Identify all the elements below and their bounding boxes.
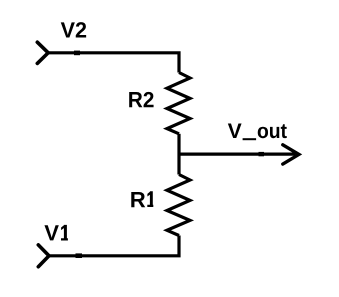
- wire V2 port to R2 top: [48, 53, 179, 73]
- label V2: [61, 22, 86, 37]
- wire R1 bottom to V1 port: [49, 236, 179, 256]
- resistor R2: [167, 73, 190, 134]
- wire node to V_out arrow: [179, 153, 296, 156]
- arrowhead V_out: [283, 145, 299, 164]
- junction pin on V_out wire: [259, 152, 265, 156]
- junction pin on V2 wire: [74, 51, 80, 56]
- label R2: [129, 92, 153, 107]
- label V1: [44, 225, 67, 241]
- port V1 (input chevron): [38, 245, 49, 267]
- label R1: [131, 191, 153, 207]
- resistor R1: [167, 175, 190, 236]
- wire R2 bottom through node to R1 top: [177, 134, 180, 175]
- label V_out: [228, 124, 287, 141]
- port V2 (input chevron): [37, 42, 48, 63]
- junction pin on V1 wire: [76, 253, 83, 258]
